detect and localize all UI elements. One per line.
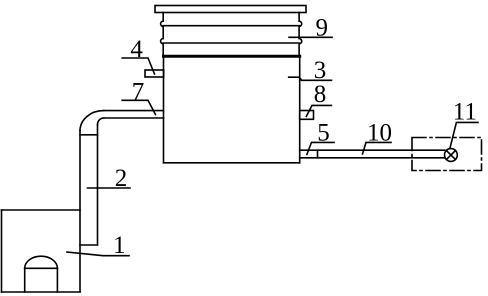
dashed enclosure (part 11) <box>412 138 482 171</box>
right pipe bottom line (parts 5/10) <box>300 157 445 159</box>
svg-text:11: 11 <box>453 99 477 126</box>
leader for 1 <box>67 252 129 256</box>
left flange (part 4) <box>145 70 164 77</box>
neck rib line upper <box>163 25 299 27</box>
neck right wall with rolled beads <box>299 13 302 56</box>
svg-text:5: 5 <box>317 119 330 146</box>
arch door dome <box>25 256 58 268</box>
lid top plate <box>155 6 306 13</box>
leader for 9 <box>289 36 332 38</box>
right pipe seam <box>317 150 319 158</box>
elbow inner curve <box>98 118 104 125</box>
neck left wall with rolled beads <box>161 13 164 56</box>
upper-left pipe top line (part 7) <box>104 110 164 112</box>
right flange (part 8) <box>300 111 314 120</box>
fan cross stroke 2 <box>446 151 455 160</box>
furnace box left wall (part 1) <box>1 210 3 292</box>
right pipe top line (parts 5/10) <box>300 149 445 151</box>
upper-left pipe bottom line (part 7) <box>104 117 164 119</box>
arch door right side <box>56 268 58 292</box>
fan circle (part 11) <box>445 149 458 162</box>
body right wall <box>299 56 301 163</box>
vertical pipe right wall (part 2) <box>97 125 99 245</box>
svg-text:7: 7 <box>132 78 145 105</box>
fan cross stroke 1 <box>446 151 455 160</box>
vertical pipe end cap <box>80 244 98 246</box>
svg-text:10: 10 <box>367 119 392 146</box>
furnace box bottom line <box>2 291 81 293</box>
body bottom line <box>164 162 300 164</box>
svg-text:9: 9 <box>315 15 328 42</box>
svg-text:3: 3 <box>314 57 327 84</box>
vertical pipe left wall / furnace right wall (part 2) <box>79 131 81 292</box>
leader for 5 <box>307 142 334 154</box>
leader for 11 <box>450 122 478 148</box>
leader for 3 <box>289 77 332 80</box>
svg-text:4: 4 <box>130 36 143 63</box>
leader for 2 <box>88 187 131 189</box>
elbow seam line <box>80 134 98 136</box>
body top thick line <box>164 55 300 58</box>
leader for 7 <box>122 100 155 114</box>
leader for 8 <box>306 105 331 116</box>
furnace box top line <box>2 209 81 211</box>
body left wall <box>163 56 165 163</box>
svg-text:1: 1 <box>113 232 126 259</box>
svg-text:2: 2 <box>115 165 128 192</box>
svg-text:8: 8 <box>314 81 327 108</box>
elbow outer curve <box>80 111 104 131</box>
leader for 4 <box>122 58 154 74</box>
arch door left side <box>24 268 26 292</box>
neck rib line lower <box>163 42 299 44</box>
arch door chord line <box>25 267 58 269</box>
leader for 10 <box>363 142 392 154</box>
